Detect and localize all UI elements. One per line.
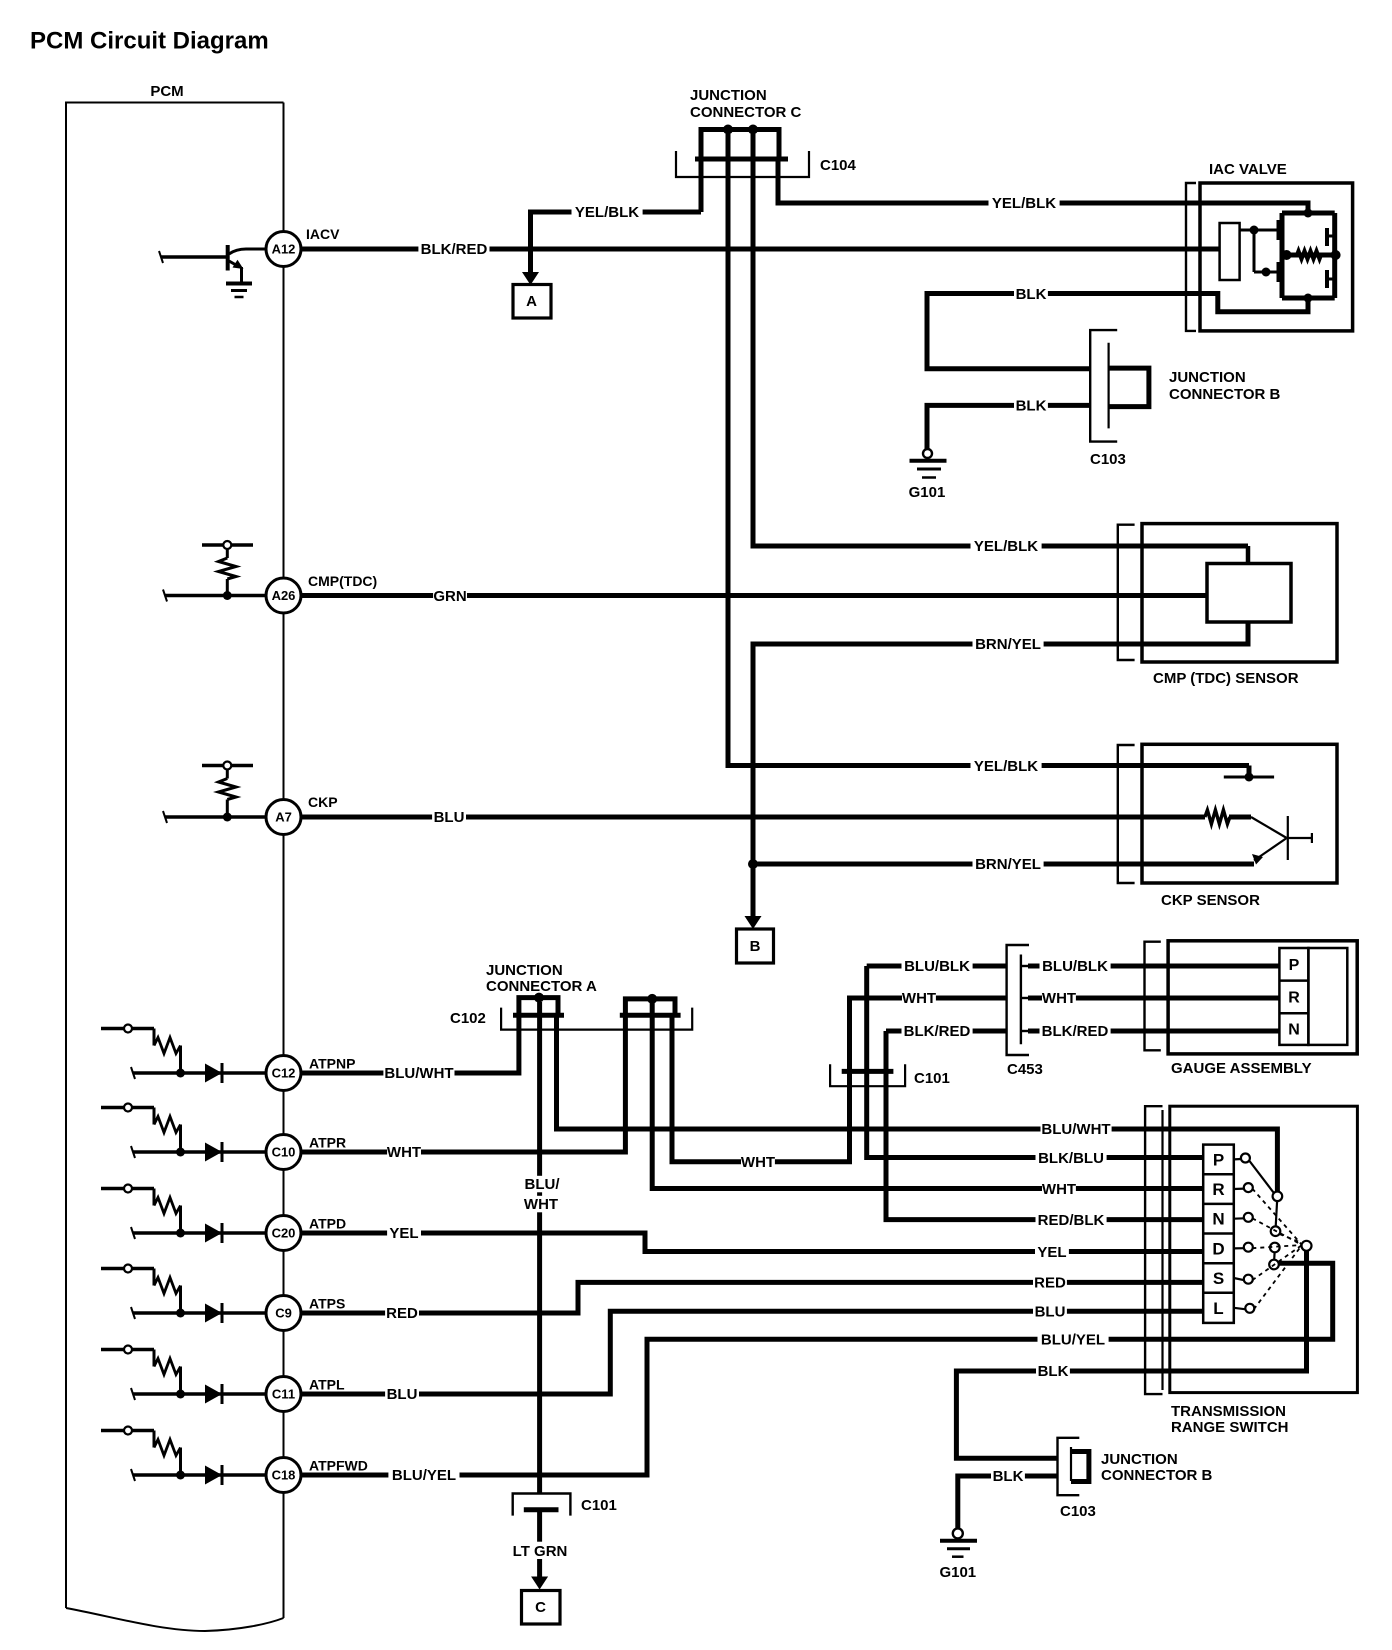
wire GRN (A26 to CMP sensor) <box>301 593 1207 598</box>
wire A7 stub <box>165 815 266 819</box>
svg-text:C9: C9 <box>275 1306 292 1321</box>
svg-text:BRN/YEL: BRN/YEL <box>975 856 1041 873</box>
svg-text:TRANSMISSION: TRANSMISSION <box>1171 1403 1286 1420</box>
svg-text:PCM Circuit Diagram: PCM Circuit Diagram <box>30 27 269 54</box>
PCM pin C18 <box>266 1458 301 1493</box>
wire LT GRN <box>537 1510 542 1542</box>
TRS cell dividers <box>1203 1173 1234 1176</box>
resistor (C20 row) <box>154 1198 181 1214</box>
svg-text:A26: A26 <box>272 588 296 603</box>
arrow to C <box>531 1577 548 1590</box>
svg-text:RANGE SWITCH: RANGE SWITCH <box>1171 1419 1289 1436</box>
svg-text:WHT: WHT <box>524 1196 558 1213</box>
CKP pickup wiring <box>1247 766 1252 778</box>
resistor R2 (A7 pull-up) <box>202 764 253 768</box>
pin dot C102 right <box>647 994 657 1004</box>
wire (H-bridge left rail lower) <box>1280 255 1285 298</box>
wire (CKP pickup bar) <box>1224 776 1274 779</box>
contact stub P <box>1234 1158 1242 1161</box>
contact S <box>1244 1275 1253 1284</box>
IAC driver block <box>1220 223 1240 280</box>
svg-text:BLU: BLU <box>434 809 465 826</box>
svg-text:BRN/YEL: BRN/YEL <box>975 636 1041 653</box>
wire BLK inside TRS (common) <box>956 1251 1306 1459</box>
svg-text:CMP (TDC) SENSOR: CMP (TDC) SENSOR <box>1153 670 1299 687</box>
wire BLK/RED (A12 to IAC valve) <box>301 247 1220 252</box>
svg-text:C10: C10 <box>272 1145 296 1160</box>
wire WHT (C102 right unit to TRS) <box>652 1003 1203 1189</box>
label BLK/RED (C453 left) <box>902 1023 973 1040</box>
label BLK (TRS) <box>1036 1363 1070 1380</box>
svg-text:PCM: PCM <box>150 83 183 100</box>
svg-text:G101: G101 <box>939 1564 976 1581</box>
resistor (C12 row) <box>154 1038 181 1054</box>
resistor (C18 row) <box>154 1440 181 1456</box>
ground (A12 emitter) <box>226 282 252 286</box>
wire WHT (C10 to C102) <box>301 1015 625 1152</box>
wire BLU/WHT (C12 to C102) <box>301 1015 519 1073</box>
arrow to B <box>745 916 762 929</box>
svg-text:WHT: WHT <box>902 990 936 1007</box>
wire (CKP vertical) <box>1287 816 1289 860</box>
label BLK/RED <box>418 241 489 257</box>
svg-text:BLK/RED: BLK/RED <box>904 1023 971 1040</box>
svg-text:BLU/BLK: BLU/BLK <box>1042 958 1108 975</box>
CKP sensor connector bracket <box>1118 745 1135 883</box>
label WHT (middle) <box>741 1154 775 1171</box>
junction connector C (C104) <box>701 130 779 160</box>
junction dot A7 <box>223 813 232 822</box>
label YEL/BLK (A branch) <box>572 204 643 221</box>
IAC valve connector bracket <box>1186 183 1196 331</box>
svg-text:C102: C102 <box>450 1010 486 1027</box>
label BRN/YEL (CKP) <box>973 856 1044 873</box>
svg-text:BLU/YEL: BLU/YEL <box>392 1467 456 1484</box>
svg-text:IAC VALVE: IAC VALVE <box>1209 161 1287 178</box>
label BLU/YEL (C18) <box>388 1467 459 1484</box>
wire (H-bridge right rail lower) <box>1332 255 1337 298</box>
svg-text:C11: C11 <box>272 1387 295 1402</box>
label BLU/ (vertical wire) <box>520 1176 563 1193</box>
wire BLU/WHT vertical (C102 to C101 bottom) <box>537 1002 542 1494</box>
PCM pin C12 <box>266 1056 301 1091</box>
svg-text:BLU/BLK: BLU/BLK <box>904 958 970 975</box>
pin dot C104 right <box>748 125 758 135</box>
label BLK/BLU (TRS) <box>1036 1149 1107 1166</box>
svg-text:N: N <box>1288 1022 1300 1039</box>
resistor (C10 row) <box>154 1117 181 1133</box>
connector C101 (bottom) <box>513 1494 571 1516</box>
svg-text:BLK: BLK <box>993 1468 1024 1485</box>
label YEL/BLK (CMP) <box>971 538 1042 555</box>
wire RED (C9 to TRS) <box>301 1282 1203 1313</box>
svg-text:CKP: CKP <box>308 794 338 810</box>
label RED (C9) <box>385 1305 419 1322</box>
contact L <box>1245 1304 1254 1313</box>
wire (CKP diagonal upper) <box>1251 817 1287 838</box>
svg-text:ATPL: ATPL <box>309 1376 345 1392</box>
svg-text:YEL: YEL <box>389 1225 418 1242</box>
wire C9 stub <box>133 1311 266 1315</box>
node (gate wire upper) <box>1250 226 1259 235</box>
dashed wiper path D <box>1252 1245 1302 1248</box>
svg-text:BLK/RED: BLK/RED <box>421 241 488 258</box>
wire C20 stub <box>133 1231 266 1235</box>
resistor (C11 row) <box>154 1359 181 1375</box>
svg-text:CONNECTOR C: CONNECTOR C <box>690 104 802 121</box>
gauge connector bracket <box>1145 942 1161 1051</box>
wire (H-bridge right rail upper) <box>1332 213 1337 255</box>
svg-text:C: C <box>535 1599 546 1616</box>
svg-text:BLK/BLU: BLK/BLU <box>1038 1150 1104 1167</box>
wire BLK/RED (C453 to gauge) <box>1028 1029 1279 1034</box>
wire BLK/RED - RED/BLK (C453 to TRS) <box>886 1031 1203 1220</box>
wire WHT (C102 to C453) <box>672 998 1007 1162</box>
svg-text:C103: C103 <box>1090 451 1126 468</box>
PCM pin A26 <box>266 578 301 613</box>
CMP (TDC) sensor box <box>1142 524 1337 662</box>
wire C18 stub <box>133 1473 266 1477</box>
wire to B <box>751 864 756 917</box>
label WHT (vertical wire) <box>524 1196 558 1213</box>
junction connector B lower (C103) <box>1058 1438 1080 1495</box>
svg-text:RED: RED <box>386 1305 418 1322</box>
diode (C10 row) <box>205 1143 222 1162</box>
wire (gate link) <box>1253 230 1256 272</box>
label LT GRN <box>509 1543 571 1560</box>
svg-text:BLK: BLK <box>1016 286 1047 303</box>
contact stub R <box>1234 1187 1245 1190</box>
connector A outline <box>501 1008 692 1030</box>
wiper contact A <box>1273 1192 1283 1202</box>
wire (H-bridge top bar) <box>1282 211 1335 216</box>
transistor Q2 (upper-left) <box>1277 220 1281 240</box>
svg-text:R: R <box>1288 990 1300 1007</box>
label RED (TRS) <box>1033 1274 1067 1291</box>
svg-text:BLU/WHT: BLU/WHT <box>384 1065 453 1082</box>
transistor Q3 (lower-left) <box>1277 262 1281 282</box>
svg-text:CKP SENSOR: CKP SENSOR <box>1161 892 1260 909</box>
wire BRN/YEL (CMP) <box>753 622 1248 864</box>
wire (H-bridge left rail upper) <box>1280 213 1285 255</box>
junction dot C20 <box>176 1229 185 1238</box>
PCM pin C11 <box>266 1377 301 1412</box>
node (CKP pickup) <box>1245 773 1254 782</box>
wire BLU (C11 to TRS) <box>301 1311 1203 1394</box>
wire (H-bridge bottom bar) <box>1282 296 1335 301</box>
sub-circuit for C12 (ATPNP) <box>101 1027 154 1031</box>
ground G101 (upper) <box>923 449 932 458</box>
wire (CMP internal) <box>1246 546 1251 564</box>
sub-circuit for C9 (ATPS) <box>101 1267 154 1271</box>
junction dot C11 <box>176 1390 185 1399</box>
svg-text:RED/BLK: RED/BLK <box>1038 1212 1105 1229</box>
wire C12 stub <box>133 1071 266 1075</box>
label YEL/BLK (IAC) <box>989 195 1060 212</box>
svg-text:BLU/WHT: BLU/WHT <box>1041 1121 1110 1138</box>
svg-text:D: D <box>1212 1239 1224 1258</box>
svg-text:C104: C104 <box>820 157 857 174</box>
wire (driver to upper gates) <box>1240 229 1277 232</box>
label BLU/WHT (TRS) <box>1041 1121 1112 1138</box>
wire BLU (A7 to CKP sensor) <box>301 815 1205 820</box>
contact D <box>1244 1243 1253 1252</box>
svg-text:JUNCTION: JUNCTION <box>690 87 767 104</box>
transmission range switch box <box>1170 1106 1358 1392</box>
node (coil right) <box>1331 250 1341 260</box>
wire YEL/BLK to A <box>531 212 702 273</box>
pivot contact <box>1302 1241 1312 1251</box>
svg-text:ATPR: ATPR <box>309 1134 346 1150</box>
wire C11 stub <box>133 1392 266 1396</box>
TRS PRNDSL box <box>1203 1145 1234 1323</box>
svg-text:C20: C20 <box>272 1226 296 1241</box>
svg-text:C101: C101 <box>914 1070 950 1087</box>
label BLK (G101) <box>1014 397 1048 414</box>
label BLU (C11) <box>385 1386 419 1403</box>
transistor Q4 (upper-right) <box>1325 228 1329 246</box>
wiper arm (P) <box>1250 1161 1274 1193</box>
svg-text:C18: C18 <box>272 1468 296 1483</box>
label WHT (C453 left) <box>902 990 936 1007</box>
wire (H-bridge mid bar) <box>1282 253 1335 258</box>
label BLK (IAC) <box>1014 285 1048 302</box>
svg-text:JUNCTION: JUNCTION <box>1169 369 1246 386</box>
svg-text:JUNCTION: JUNCTION <box>1101 1451 1178 1468</box>
connector C mating bar <box>695 157 788 162</box>
TRS connector bracket <box>1145 1106 1162 1394</box>
wiper link <box>1276 1201 1277 1227</box>
wire BRN/YEL (CKP) <box>753 862 1254 867</box>
wire (driver to lower gates) <box>1254 271 1277 274</box>
svg-text:A12: A12 <box>272 242 296 257</box>
PCM pin A7 <box>266 800 301 835</box>
IAC valve coil <box>1297 251 1321 259</box>
dashed wiper path L <box>1254 1245 1302 1309</box>
ground G101 (lower) <box>953 1528 963 1538</box>
junction dot C18 <box>176 1471 185 1480</box>
arrow to A <box>522 272 539 285</box>
resistor (CKP coil) <box>1205 810 1230 824</box>
wire (CKP diagonal lower) <box>1254 838 1287 861</box>
svg-text:BLK/RED: BLK/RED <box>1042 1023 1109 1040</box>
svg-text:GRN: GRN <box>433 588 466 605</box>
label BLU (TRS) <box>1033 1303 1067 1320</box>
svg-text:BLU: BLU <box>387 1386 418 1403</box>
wire BLU/BLK - BLK/BLU (C453 to TRS) <box>867 966 1203 1158</box>
svg-text:G101: G101 <box>909 484 946 501</box>
PCM pin C9 <box>266 1296 301 1331</box>
svg-text:ATPS: ATPS <box>309 1295 345 1311</box>
svg-text:P: P <box>1289 957 1300 974</box>
svg-text:BLK: BLK <box>1038 1363 1069 1380</box>
junction connector A (C102) left unit <box>519 998 558 1016</box>
wire YEL/BLK to CMP sensor <box>753 134 1248 546</box>
wire YEL/BLK to CKP sensor <box>728 134 1249 766</box>
node (gate wire lower) <box>1262 268 1271 277</box>
svg-text:YEL/BLK: YEL/BLK <box>974 758 1038 775</box>
svg-text:C101: C101 <box>581 1497 617 1514</box>
connector box C <box>522 1591 561 1625</box>
wire BLK (G101 to C103) <box>927 405 1090 449</box>
wiper contact B <box>1271 1226 1281 1236</box>
svg-text:WHT: WHT <box>1042 990 1076 1007</box>
svg-text:YEL: YEL <box>1037 1244 1066 1261</box>
label BLU/BLK (right) <box>1040 958 1111 975</box>
resistor R1 (A26 pull-up) <box>202 543 253 547</box>
svg-text:WHT: WHT <box>741 1154 775 1171</box>
wire BLU/YEL (C18 to TRS) <box>301 1263 1333 1475</box>
label YEL (C20) <box>387 1225 421 1242</box>
junction dot BRN/YEL <box>748 859 758 869</box>
label BLK (G101 lower) <box>991 1468 1025 1485</box>
junction connector A (C102) right unit <box>625 999 675 1015</box>
label WHT (right) <box>1042 990 1076 1007</box>
svg-text:RED: RED <box>1034 1275 1066 1292</box>
wire BLK out of IAC valve <box>927 294 1308 369</box>
junction connector B upper (C103) <box>1090 330 1117 442</box>
sub-circuit for C18 (ATPFWD) <box>101 1429 154 1433</box>
svg-text:ATPFWD: ATPFWD <box>309 1457 368 1473</box>
label WHT (C10) <box>387 1144 421 1161</box>
svg-text:C12: C12 <box>272 1066 296 1081</box>
transistor Q1 (IACV driver) <box>161 255 228 259</box>
contact stub D <box>1234 1247 1245 1249</box>
dashed wiper path N <box>1252 1218 1302 1245</box>
diode (C9 row) <box>205 1304 222 1323</box>
svg-text:ATPNP: ATPNP <box>309 1055 355 1071</box>
dashed wiper path R <box>1252 1189 1302 1245</box>
contact stub N <box>1234 1217 1245 1220</box>
svg-text:CONNECTOR B: CONNECTOR B <box>1101 1467 1213 1484</box>
sub-circuit for C20 (ATPD) <box>101 1187 154 1191</box>
wire YEL (C20 to TRS) <box>301 1233 1203 1252</box>
resistor (C9 row) <box>154 1278 181 1294</box>
svg-text:P: P <box>1213 1150 1224 1169</box>
wire BLK (G101 lower to C103) <box>958 1476 1058 1528</box>
connector C453 <box>1007 945 1029 1055</box>
node (top of H-bridge) <box>1304 209 1313 218</box>
svg-text:JUNCTION: JUNCTION <box>486 962 563 979</box>
svg-text:BLU: BLU <box>1035 1304 1066 1321</box>
wire WHT (C453 to gauge) <box>1028 996 1279 1001</box>
svg-text:LT GRN: LT GRN <box>513 1543 568 1560</box>
label RED/BLK (TRS) <box>1036 1211 1107 1228</box>
label BLU/YEL (TRS) <box>1038 1331 1109 1348</box>
svg-text:IACV: IACV <box>306 226 340 242</box>
svg-text:BLU/: BLU/ <box>525 1176 561 1193</box>
junction dot C12 <box>176 1069 185 1078</box>
label BLU/BLK (C453 left) <box>902 958 973 975</box>
wire YEL/BLK to IAC valve <box>778 159 1308 213</box>
PCM pin A12 <box>266 232 301 267</box>
PCM pin C10 <box>266 1135 301 1170</box>
svg-text:A: A <box>526 293 537 310</box>
svg-text:WHT: WHT <box>387 1144 421 1161</box>
svg-text:YEL/BLK: YEL/BLK <box>992 195 1056 212</box>
label BLU (CKP) <box>432 809 466 826</box>
sub-circuit for C11 (ATPL) <box>101 1348 154 1352</box>
wire BLU/BLK (C453 to gauge) <box>1028 964 1279 969</box>
wire C10 stub <box>133 1150 266 1154</box>
PCM pin C20 <box>266 1216 301 1251</box>
junction dot A26 <box>223 591 232 600</box>
gauge PRN indicator <box>1279 948 1308 1045</box>
svg-text:S: S <box>1213 1269 1224 1288</box>
wiper contact D <box>1269 1260 1279 1270</box>
svg-text:ATPD: ATPD <box>309 1215 346 1231</box>
svg-text:BLU/YEL: BLU/YEL <box>1041 1332 1105 1349</box>
diode (C12 row) <box>205 1064 222 1083</box>
svg-text:YEL/BLK: YEL/BLK <box>575 204 639 221</box>
label YEL/BLK (CKP) <box>971 757 1042 774</box>
svg-text:GAUGE ASSEMBLY: GAUGE ASSEMBLY <box>1171 1060 1312 1077</box>
wire A26 stub <box>165 594 266 598</box>
gauge assembly box <box>1168 941 1357 1054</box>
pin dot C104 left <box>723 125 733 135</box>
svg-text:L: L <box>1213 1299 1223 1318</box>
wiper contact C <box>1270 1243 1280 1253</box>
connector C101 (middle) <box>830 1064 905 1086</box>
svg-text:CONNECTOR A: CONNECTOR A <box>486 978 597 995</box>
svg-text:CONNECTOR B: CONNECTOR B <box>1169 386 1281 403</box>
CMP sensor element <box>1207 564 1291 623</box>
contact R <box>1244 1183 1253 1192</box>
IAC valve outer <box>1200 183 1353 331</box>
connector C outline <box>676 151 809 177</box>
transistor Q5 (lower-right) <box>1325 270 1329 288</box>
contact stub S <box>1234 1278 1245 1280</box>
junction dot C10 <box>176 1148 185 1157</box>
CKP sensor box <box>1142 744 1337 883</box>
junction dot C9 <box>176 1309 185 1318</box>
connector box A <box>513 285 551 319</box>
label WHT (TRS) <box>1042 1180 1076 1197</box>
contact P <box>1241 1154 1250 1163</box>
svg-text:YEL/BLK: YEL/BLK <box>974 538 1038 555</box>
diode (C11 row) <box>205 1385 222 1404</box>
contact stub L <box>1234 1308 1246 1310</box>
label GRN <box>433 587 467 604</box>
node (bottom of H-bridge) <box>1304 294 1313 303</box>
svg-text:B: B <box>750 938 761 955</box>
contact N <box>1244 1213 1253 1222</box>
svg-text:C103: C103 <box>1060 1503 1096 1520</box>
diode (C20 row) <box>205 1224 222 1243</box>
svg-text:CMP(TDC): CMP(TDC) <box>308 573 377 589</box>
CMP sensor connector bracket <box>1118 525 1135 660</box>
dashed wiper path S <box>1252 1245 1302 1280</box>
label YEL (TRS) <box>1035 1243 1069 1260</box>
svg-text:A7: A7 <box>275 810 292 825</box>
node (coil left) <box>1282 250 1292 260</box>
svg-text:BLK: BLK <box>1016 398 1047 415</box>
diode (C18 row) <box>205 1466 222 1485</box>
pin dot C102 left <box>534 993 544 1003</box>
sub-circuit for C10 (ATPR) <box>101 1106 154 1110</box>
label BRN/YEL (CMP) <box>973 636 1044 653</box>
svg-text:C453: C453 <box>1007 1061 1043 1078</box>
label BLK/RED (right) <box>1040 1023 1111 1040</box>
svg-text:WHT: WHT <box>1042 1181 1076 1198</box>
svg-text:R: R <box>1212 1180 1224 1199</box>
connector box B <box>737 929 774 963</box>
PCM box <box>66 103 284 1609</box>
wire BLU/WHT (C102 to TRS) <box>557 1015 1278 1191</box>
svg-text:N: N <box>1212 1210 1224 1229</box>
label BLU/WHT (C12) <box>383 1065 454 1082</box>
